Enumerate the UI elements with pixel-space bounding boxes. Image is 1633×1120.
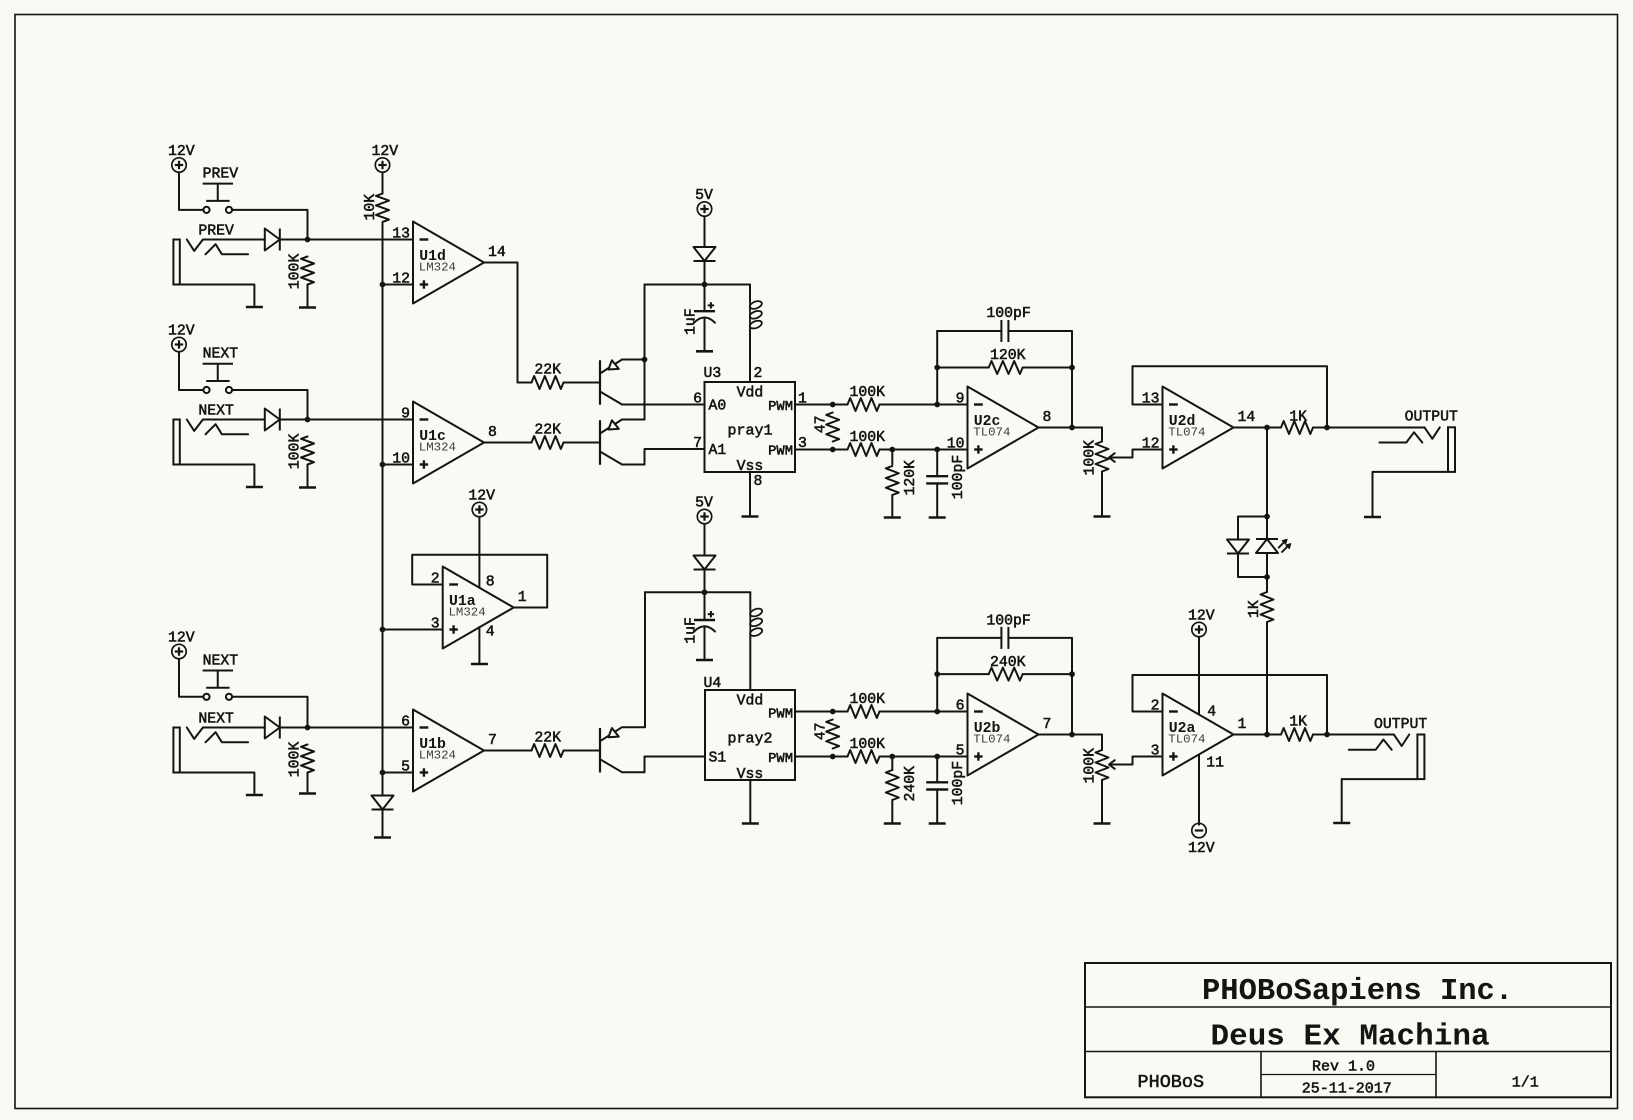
resistor 120K to ground [886,466,899,495]
svg-text:100pF: 100pF [986,614,1030,630]
wire feedback top (100pF bottom) [937,637,1001,639]
connector NEXT1 input jack [173,403,248,464]
wire PREV jack to diode [203,239,265,241]
op-amp U2b TL074 [956,694,1052,776]
wire feedback 120K left stub [937,367,989,369]
wire 1uF to ground [704,318,706,350]
svg-text:1: 1 [1238,717,1247,733]
wire feedback top (100pF) [937,330,1001,332]
capacitor 100pF feedback (U2c) [1001,320,1008,342]
wire diode to rail (pray2) [704,570,706,593]
svg-text:NEXT: NEXT [203,347,239,363]
svg-text:12V: 12V [168,144,195,160]
svg-text:NEXT: NEXT [198,711,234,727]
svg-text:14: 14 [488,245,506,261]
svg-text:LM324: LM324 [419,261,456,275]
svg-text:12: 12 [1142,437,1160,453]
wire U3 PWM3 to 100K [795,449,848,451]
resistor 100K (NEXT1 pulldown) [301,437,314,465]
svg-text:120K: 120K [990,348,1026,364]
wire feedback top right [1008,331,1072,428]
svg-text:PREV: PREV [198,223,234,239]
wire to 240K [891,757,893,771]
transistor Q3 (PNP, S1 driver) [600,727,645,772]
wire pot wiper to U2d pin 12 [1133,450,1163,458]
wire 100K to U2b pin 6 [880,711,968,713]
ground U1a pin 4 [471,663,488,666]
svg-text:47: 47 [814,723,830,741]
svg-text:1K: 1K [1247,600,1263,618]
svg-text:100K: 100K [850,385,886,401]
junction U2b out feedback [1069,732,1075,738]
svg-text:1K: 1K [1289,715,1307,731]
junction U2c out feedback [1069,425,1075,431]
svg-text:100K: 100K [287,434,303,470]
svg-text:1/1: 1/1 [1512,1075,1539,1092]
svg-text:NEXT: NEXT [198,403,234,419]
wire pray2 supply rail [645,591,750,593]
resistor 1K (LED) [1261,592,1274,622]
wire to 120K [891,450,893,465]
connector PREV input jack [173,223,248,284]
wire rail to 1uF [704,285,706,312]
svg-text:1uF: 1uF [683,617,699,644]
svg-text:100K: 100K [1083,748,1099,784]
ground 100pF [929,516,946,519]
power +12V supply (NEXT2 button) [168,630,195,658]
wire NEXT1 100K to ground [307,465,309,486]
wire rail to coil [749,285,751,302]
wire U1c pin 8 output [484,442,532,444]
LED arrows [1279,542,1285,548]
IC U4 pray2 [704,676,796,783]
svg-text:6: 6 [401,715,410,731]
power -12V supply (U2a pin 11) [1188,823,1215,857]
diode D6 (5V pray2) [694,556,716,570]
ground OUTPUT jack top [1364,516,1381,519]
svg-text:PHOBoSapiens Inc.: PHOBoSapiens Inc. [1202,975,1513,1009]
junction LED bottom node [1264,574,1270,580]
svg-text:U3: U3 [704,366,722,382]
wire NEXT2 100K to ground [307,773,309,792]
wire LED2 to bottom node [1266,553,1268,577]
pushbutton PREV [203,167,239,213]
ground PREV 100K [299,306,316,309]
svg-text:1uF: 1uF [683,308,699,335]
svg-text:8: 8 [488,425,497,441]
svg-text:TL074: TL074 [1168,426,1205,440]
svg-text:8: 8 [1043,410,1052,426]
svg-text:A0: A0 [709,399,727,415]
wire diode to rail [704,261,706,285]
resistor 22K (U1c out) [532,436,564,449]
svg-text:100K: 100K [1083,440,1099,476]
svg-text:13: 13 [392,227,410,243]
svg-text:240K: 240K [903,766,919,802]
wire U2b feedback left leg [936,638,938,712]
wire 100K to U2b pin 5 [880,756,968,758]
potentiometer 100K (top) [1096,442,1133,472]
wire 22K to Q2 base [564,442,601,444]
resistor 22K (U1d out) [532,376,564,389]
svg-text:LM324: LM324 [419,441,456,455]
wire 5V to diode (pray2) [704,524,706,555]
wire U2d output [1234,427,1282,429]
ground NEXT jack [246,794,263,797]
ground 120K [884,516,901,519]
op-amp U1c LM324 [392,402,497,484]
op-amp U2d TL074 [1142,387,1256,469]
wire U3 Vss to ground [749,472,751,515]
diode D3 (NEXT2) [265,717,280,739]
wire clamp diode to ground [382,810,384,837]
wire 100pF to ground (bottom) [936,790,938,823]
junction bus at U1c pin 10 [380,462,386,468]
resistor 47 (top) [826,413,839,442]
junction bus at U1d pin 12 [380,282,386,288]
wire 1K to U2a output node [1266,622,1268,735]
resistor 22K (U1b out) [532,744,564,757]
svg-text:100pF: 100pF [986,306,1030,322]
svg-text:4: 4 [486,625,495,641]
wire NEXT2 jack to diode [203,727,265,729]
svg-text:8: 8 [486,575,495,591]
svg-text:3: 3 [1151,744,1160,760]
wire pray1 supply rail [645,284,751,286]
svg-text:PREV: PREV [203,167,239,183]
junction 120K tap [889,447,895,453]
wire bus to U1d pin 12 [383,284,414,286]
wire rail to 1uF (pray2) [704,592,706,620]
svg-text:7: 7 [1043,717,1052,733]
junction bus at U1a pin 3 [380,627,386,633]
diode D1 (PREV) [265,229,280,251]
wire NEXT2 button to input node [232,697,307,728]
junction U2a output node [1264,732,1270,738]
wire U2d out down to LEDs [1266,428,1268,517]
junction 100pF tap (bottom) [934,754,940,760]
wire Q3 collector to U4 S1 [645,757,706,773]
svg-text:100K: 100K [850,692,886,708]
power +5V supply (pray2) [695,495,713,523]
wire U2c feedback left leg [936,331,938,405]
svg-text:PWM: PWM [768,444,793,459]
wire U4 Vss to ground [749,780,751,822]
op-amp U1d LM324 [392,222,506,304]
svg-text:100K: 100K [287,254,303,290]
wire pot wiper to U2a pin 3 [1133,757,1163,765]
svg-text:100K: 100K [287,742,303,778]
title block [1085,963,1611,1098]
wire rail to coil (pray2) [749,592,751,609]
connector OUTPUT jack (top) [1379,410,1458,472]
resistor 1K (top out) [1281,421,1313,434]
capacitor 1uF (pray2) [694,611,715,632]
resistor 1K (bottom out) [1281,728,1313,741]
wire U4 PWM3 to 100K [795,756,848,758]
resistor 240K to ground [886,770,899,800]
wire feedback 240K right stub [1023,673,1072,675]
ground 100pF bottom [929,822,946,825]
svg-text:pray1: pray1 [727,423,772,440]
inductor coil (pray1 Vdd) [749,300,763,330]
wire coil to U3 Vdd pin 2 [749,328,751,382]
wire U2a output [1234,734,1282,736]
wire to 100pF [936,450,938,477]
junction rail at 1uF (pray2) [702,589,708,595]
IC U3 pray1 [693,366,807,475]
wire 12V to U1a pin 8 [478,517,480,587]
junction rail at 1uF [702,282,708,288]
power +12V supply (10K bias) [371,144,398,172]
svg-text:100K: 100K [850,737,886,753]
svg-text:6: 6 [693,392,702,408]
wire U1d pin 14 output [484,263,532,383]
wire to 100pF (bottom) [936,757,938,783]
power +12V supply (PREV button) [168,144,195,172]
wire bus to U1a pin 3 [383,629,443,631]
wire Q2 collector to U3 A1 [645,449,705,465]
resistor 100K (NEXT2 pulldown) [301,745,314,773]
wire 12V to PREV button [179,173,203,210]
wire 12V to NEXT1 button [179,352,203,390]
svg-text:2: 2 [431,572,440,588]
svg-text:12V: 12V [1188,608,1215,624]
junction U2d output node [1264,425,1270,431]
svg-text:4: 4 [1207,705,1216,721]
junction PWM1 node [830,402,836,408]
pushbutton NEXT2 [203,654,239,700]
diode bus lower clamp [372,796,394,810]
wire NEXT1 diode to U1c pin 9 [280,419,413,421]
svg-text:12V: 12V [371,144,398,160]
junction PWM1 node (bottom) [830,709,836,715]
ground pot top [1094,515,1111,518]
junction Q1 emitter rail [642,357,648,363]
ground NEXT1 100K [299,486,316,489]
svg-text:PHOBoS: PHOBoS [1138,1072,1205,1093]
transistor Q2 (PNP, A1 driver) [600,420,645,465]
wire U2c output [1039,427,1103,429]
svg-text:240K: 240K [990,655,1026,671]
svg-text:NEXT: NEXT [203,654,239,670]
resistor 100K (PWM3 to U2c+) [848,443,880,456]
svg-text:1: 1 [518,590,527,606]
wire 22K to Q3 base [564,750,601,752]
wire U1a pin 4 to ground [478,627,480,663]
op-amp U2c TL074 [947,387,1052,469]
power +12V supply (NEXT1 button) [168,323,195,351]
ground 240K [884,822,901,825]
connector NEXT2 input jack [173,711,248,772]
ground PREV jack [246,306,263,309]
wire U2a pin 11 to -12V [1198,755,1200,825]
wire 100K to U2c pin 10 [880,449,968,451]
svg-text:12V: 12V [468,488,495,504]
LED D8 (up) [1256,539,1278,553]
wire PREV diode to U1d pin 13 [280,239,413,241]
wire U3 PWM1 to 100K [795,404,848,406]
capacitor 100pF to ground (bottom) [926,782,948,789]
svg-text:100pF: 100pF [951,455,967,499]
svg-text:PWM: PWM [768,707,793,722]
wire U2d feedback [1133,366,1328,427]
svg-text:OUTPUT: OUTPUT [1374,717,1427,733]
diode D2 (NEXT1) [265,409,280,431]
resistor 240K feedback (U2b) [989,668,1023,681]
wire rail drop to Q3 emitter [644,592,646,727]
resistor 100K (PWM1 to U2c-) [848,398,880,411]
wire to LED2 [1266,517,1268,540]
wire 5V to diode [704,217,706,247]
capacitor 100pF feedback (U2b) [1001,627,1008,649]
op-amp U1a LM324 [431,567,527,649]
wire 1uF to ground (pray2) [704,627,706,659]
svg-text:22K: 22K [534,423,561,439]
wire 100K to U2c pin 9 [880,404,968,406]
svg-text:TL074: TL074 [973,426,1010,440]
svg-text:5: 5 [956,744,965,760]
wire U2a feedback [1133,675,1328,735]
svg-text:12V: 12V [168,323,195,339]
power +5V supply (pray1) [695,188,713,216]
wire 120K to ground [891,495,893,516]
svg-text:Deus Ex Machina: Deus Ex Machina [1211,1020,1490,1055]
svg-text:OUTPUT: OUTPUT [1405,410,1458,426]
potentiometer 100K (bottom) [1096,750,1133,780]
wire U2b output [1039,734,1103,736]
wire to LED1 [1238,517,1267,540]
svg-text:Vdd: Vdd [737,386,764,402]
wire top jack sleeve to ground [1373,472,1449,516]
svg-text:Vdd: Vdd [737,694,764,710]
svg-text:Rev 1.0: Rev 1.0 [1312,1059,1375,1076]
ground bias clamp [374,836,391,839]
svg-text:LM324: LM324 [419,749,456,763]
junction U2c pin 9 [934,402,940,408]
svg-text:PWM: PWM [768,400,793,415]
wire feedback 240K left stub [937,673,989,675]
wire PREV jack sleeve to ground [180,285,255,306]
svg-text:22K: 22K [534,363,561,379]
ground U3 Vss [742,515,759,518]
junction bus at U1b pin 5 [380,770,386,776]
ground 1uF pray2 [696,659,713,662]
svg-text:14: 14 [1238,410,1256,426]
svg-text:25-11-2017: 25-11-2017 [1302,1081,1392,1098]
svg-text:120K: 120K [903,460,919,496]
junction 100pF tap [934,447,940,453]
junction U2b pin 6 [934,709,940,715]
wire 100K to ground [307,285,309,306]
svg-text:A1: A1 [709,443,727,459]
resistor 47 (bottom) [826,720,839,749]
op-amp U1b LM324 [401,710,497,792]
ground NEXT jack [246,486,263,489]
LED D7 (down) [1227,540,1249,554]
resistor 100K (PWM1 to U2b-) [848,705,880,718]
wire U1a feedback loop [412,555,547,608]
resistor 100K (PREV pulldown) [301,257,314,285]
ground U4 Vss [742,822,759,825]
wire bottom jack sleeve to ground [1342,779,1418,821]
wire 22K to Q1 base [564,382,601,384]
svg-text:12V: 12V [168,630,195,646]
power +12V supply (U1a pin 8) [468,488,495,516]
resistor 120K feedback (U2c) [989,361,1023,374]
junction PWM3 node (bottom) [830,754,836,760]
svg-text:10: 10 [947,437,965,453]
ground OUTPUT jack bottom [1333,822,1350,825]
wire LED1 to bottom node [1238,554,1267,578]
wire 5V rail drop to Q1/Q2 emitters [644,285,646,420]
wire Q1 collector to U3 A0 [622,404,705,406]
svg-text:11: 11 [1206,756,1224,772]
capacitor 100pF to ground (top) [926,476,948,483]
svg-text:1K: 1K [1289,410,1307,426]
wire U2c out to pot [1101,428,1103,442]
svg-text:2: 2 [754,366,763,382]
wire PREV button to input node [232,210,307,240]
svg-text:TL074: TL074 [1168,733,1205,747]
svg-text:8: 8 [754,474,763,490]
connector OUTPUT jack (bottom) [1349,717,1428,779]
svg-text:PWM: PWM [768,752,793,767]
junction top out feedback [1324,425,1330,431]
junction LED top node [1264,514,1270,520]
inductor coil (pray2 Vdd) [749,607,763,637]
wire U4 PWM1 to 100K [795,711,848,713]
svg-text:S1: S1 [709,751,727,767]
junction NEXT2 input node [305,725,311,731]
svg-text:12V: 12V [1188,841,1215,857]
junction PWM3 node [830,447,836,453]
wire 100pF to ground [936,483,938,516]
wire NEXT jack sleeve to ground [180,465,255,486]
svg-text:pray2: pray2 [727,731,772,748]
svg-text:100K: 100K [850,430,886,446]
junction feedback 120K right [1069,365,1075,371]
junction NEXT1 input node [305,417,311,423]
wire 1K to output jack (top) [1313,427,1424,429]
svg-text:5V: 5V [695,495,713,511]
ground 1uF pray1 [696,350,713,353]
svg-text:5V: 5V [695,188,713,204]
ground NEXT2 100K [299,792,316,795]
wire 12V to NEXT2 button [179,659,203,697]
wire coil to U4 Vdd [749,636,751,690]
wire LEDs to 1K [1266,577,1268,592]
svg-text:9: 9 [956,392,965,408]
wire NEXT jack sleeve to ground [180,773,255,794]
wire U1b pin 7 output [484,750,532,752]
wire bus to U1b pin 5 [383,772,414,774]
wire feedback 120K right stub [1023,367,1072,369]
wire NEXT1 button to input node [232,390,307,420]
svg-text:7: 7 [488,733,497,749]
power +12V supply (U2a pin 4) [1188,608,1215,636]
svg-text:100pF: 100pF [951,761,967,805]
wire pot to ground [1101,472,1103,516]
op-amp U2a TL074 [1151,694,1247,776]
svg-text:10K: 10K [363,194,379,221]
junction bottom out feedback [1324,732,1330,738]
svg-text:TL074: TL074 [973,733,1010,747]
svg-text:9: 9 [401,407,410,423]
junction PREV input node [305,237,311,243]
wire bus to U1c pin 10 [383,464,414,466]
capacitor 1uF (pray1) [694,302,715,323]
